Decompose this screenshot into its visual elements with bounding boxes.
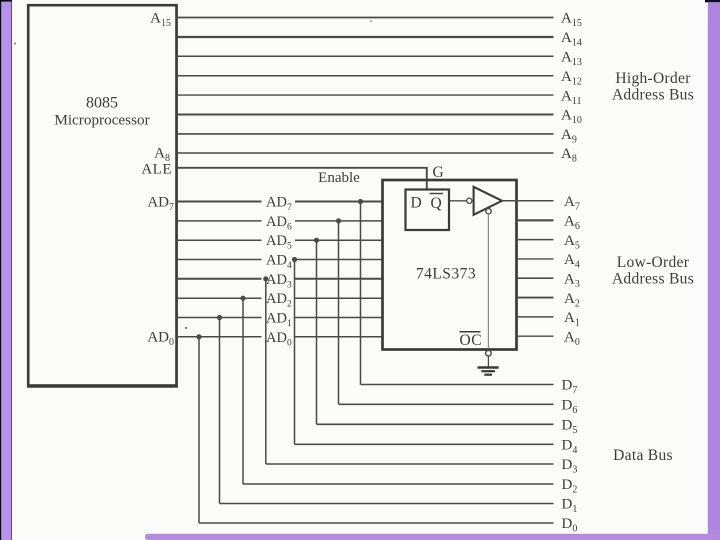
svg-text:OC: OC [460,332,483,349]
svg-text:D: D [411,195,422,212]
wire D1 data bus line [220,503,554,505]
wire AD7 to latch input [295,201,384,203]
wire A5 latch output [517,239,554,241]
wire AD1 from U1 [177,317,262,319]
wire D0 data bus line [199,522,554,524]
scan speck (decorative) [14,42,16,44]
wire AD1 to latch input [295,317,384,319]
wire D6 data bus line [339,403,554,405]
wire AD3 from U1 [177,278,262,280]
inverter bubble at buffer input [467,198,472,203]
wire A9 high-order address line [177,133,554,135]
wire Q output to buffer [449,200,467,202]
junction AD6/D6 [336,218,341,223]
wire AD0 from U1 [177,336,262,338]
wire D3 data bus line [266,463,554,465]
svg-text:G: G [433,164,444,181]
junction AD0/D0 [196,334,201,339]
wire A15 high-order address line [177,17,554,19]
wire A14 high-order address line [177,36,554,38]
wire A8 high-order address line [177,152,554,154]
junction AD1/D1 [217,315,222,320]
wire ALE to latch enable G [177,168,427,190]
svg-text:Address Bus: Address Bus [612,87,694,104]
bubble on OC pin below latch [486,350,492,356]
wire AD4 to latch input [295,259,384,261]
wire AD4 drop to data bus [294,260,296,445]
wire OC to ground [487,356,489,367]
IC U1 8085 Microprocessor body [27,5,178,387]
wire D7 data bus line [361,384,554,386]
tri-state control bubble [486,209,491,214]
svg-text:Low-Order: Low-Order [617,254,690,271]
svg-text:Q: Q [431,195,442,212]
wire AD2 to latch input [295,297,384,299]
svg-text:Microprocessor: Microprocessor [54,112,149,129]
wire AD5 to latch input [295,239,384,241]
junction AD4/D4 [292,257,297,262]
svg-text:ALE: ALE [141,161,172,177]
svg-text:Enable: Enable [318,170,360,186]
wire AD2 drop to data bus [242,298,244,484]
wire A7 buffer output [502,200,554,202]
wire AD3 drop to data bus [265,279,267,464]
wire AD2 from U1 [177,297,262,299]
junction AD7/D7 [358,199,363,204]
wire AD0 to latch input [295,336,384,338]
wire A11 high-order address line [177,94,554,96]
pin label OC (active low, U2) [460,332,483,349]
wire A10 high-order address line [177,114,554,116]
svg-text:8085: 8085 [86,95,118,112]
label High-Order Address Bus [612,70,694,104]
wire AD6 from U1 [177,220,262,222]
wire AD7 drop to data bus [360,202,362,385]
wire A13 high-order address line [177,55,554,57]
IC U2 74LS373 octal latch body [383,180,517,350]
wire A6 latch output [517,219,554,221]
wire AD5 from U1 [177,239,262,241]
wire A4 latch output [517,258,554,260]
svg-text:Address Bus: Address Bus [612,271,694,288]
junction AD5/D5 [314,238,319,243]
wire A2 latch output [517,297,554,299]
wire tri-state control to OC pin [487,214,489,349]
wire A12 high-order address line [177,75,554,77]
wire AD3 to latch input [295,278,384,280]
ground symbol [478,368,499,375]
wire A1 latch output [517,316,554,318]
wire D2 data bus line [243,483,554,485]
svg-text:Data Bus: Data Bus [613,447,673,464]
wire AD6 drop to data bus [338,221,340,404]
wire AD0 drop to data bus [198,337,200,523]
svg-text:High-Order: High-Order [615,70,691,87]
wire A3 latch output [517,277,554,279]
wire D5 data bus line [317,423,554,425]
wire D4 data bus line [295,443,554,445]
svg-text:74LS373: 74LS373 [416,266,476,283]
wire AD5 drop to data bus [316,240,318,424]
junction AD2/D2 [240,296,245,301]
wire AD6 to latch input [295,220,384,222]
wire A0 latch output [517,335,554,337]
junction AD3/D3 [263,276,268,281]
label Low-Order Address Bus [612,254,694,288]
wire AD7 from U1 [177,201,262,203]
wire AD4 from U1 [177,259,262,261]
tri-state output buffer of U2 [474,187,502,215]
D flip-flop cell of U2 [406,190,450,231]
wire AD1 drop to data bus [219,318,221,504]
